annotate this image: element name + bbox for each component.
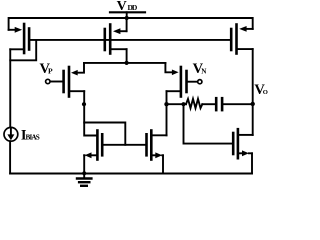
transistor M7 (PMOS output current source): [231, 25, 253, 54]
transistor M3 (NMOS mirror, diode side): [84, 131, 102, 160]
node comp branch dot: [181, 102, 185, 106]
wire node A branch to mirror gates: [84, 123, 125, 145]
wire M1 drain down to M3 drain (node A): [84, 91, 96, 135]
wire M5 source to VDD: [126, 18, 128, 31]
svg-text:O: O: [263, 89, 268, 96]
label VP: [40, 61, 54, 77]
transistor M6 (NMOS output driver): [233, 129, 253, 158]
wire IBIAS to ground rail: [9, 141, 11, 173]
transistor M2 (input PMOS, VN side): [165, 63, 186, 97]
resistor RZ: [186, 99, 202, 108]
wire first stage output column: [166, 91, 168, 135]
svg-text:BIAS: BIAS: [26, 134, 40, 142]
transistor M1 (input PMOS, VP side): [64, 63, 85, 97]
wire M3 source to ground: [83, 155, 85, 173]
label VO: [254, 82, 268, 98]
wire comp node to resistor: [167, 103, 187, 105]
svg-text:P: P: [48, 67, 53, 76]
transistor M4 (NMOS mirror, output side): [147, 131, 167, 160]
label IBIAS: [21, 128, 40, 144]
wire ground rail: [10, 173, 252, 175]
wire M5 drain to tail: [126, 49, 128, 63]
wire branch down to M6 gate: [184, 104, 232, 143]
wire VO column: [252, 49, 254, 135]
svg-text:V: V: [117, 0, 127, 14]
ground symbol: [77, 174, 91, 186]
node VO dot: [251, 102, 255, 106]
wire diode connection gate-to-drain of M8: [10, 40, 36, 60]
wire mirror gate link M3-M4: [104, 144, 146, 146]
wire M4 source to ground: [162, 155, 164, 173]
node A dot: [82, 102, 86, 106]
terminal VP circle: [46, 79, 63, 83]
node tail junction dot: [125, 61, 129, 65]
svg-text:N: N: [201, 67, 207, 75]
transistor M5 (PMOS tail current source): [105, 25, 127, 54]
wire tail rail: [84, 62, 165, 64]
node VDD junction dot: [125, 16, 129, 20]
label VDD: [117, 0, 138, 14]
terminal VN circle: [188, 80, 202, 84]
wire bias gate rail M8 to M5 to M7: [30, 39, 230, 41]
wire capacitor to VO: [223, 103, 252, 105]
VDD supply symbol: [110, 12, 145, 18]
node first-stage output dot: [164, 102, 168, 106]
current source IBIAS: [4, 127, 18, 141]
wire VDD rail: [9, 18, 253, 30]
transistor M8 (diode-connected PMOS bias mirror): [9, 24, 30, 53]
wire resistor to capacitor: [202, 103, 215, 105]
wire M6 source to ground rail: [251, 153, 253, 173]
capacitor CC: [216, 98, 222, 110]
wire M8 drain to IBIAS: [9, 49, 11, 127]
node ground junction dot: [82, 171, 86, 175]
label VN: [193, 61, 208, 77]
